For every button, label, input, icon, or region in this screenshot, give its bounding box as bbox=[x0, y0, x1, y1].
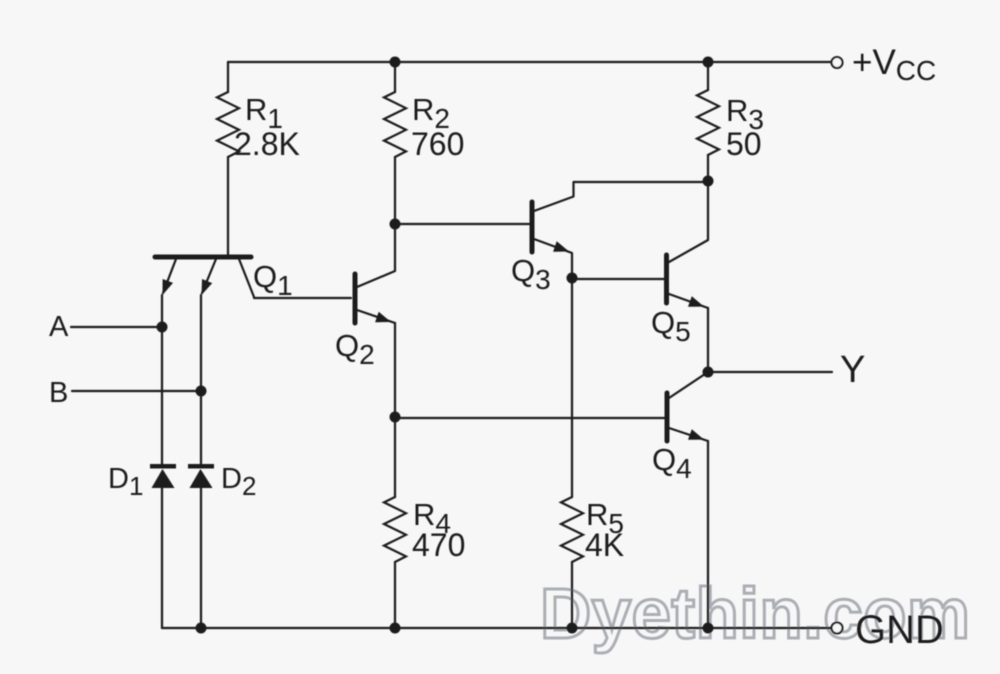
svg-text:Y: Y bbox=[840, 349, 865, 391]
transistor Q5 emitter arrowhead bbox=[688, 296, 704, 306]
junction dot node A bbox=[157, 322, 168, 333]
junction dot Q2 emitter node bbox=[390, 412, 401, 423]
transistor Q3 bar bbox=[530, 202, 535, 252]
wire top VCC rail bbox=[228, 61, 832, 63]
svg-text:4K: 4K bbox=[585, 527, 624, 563]
transistor Q1 emitter1 diagonal bbox=[163, 259, 176, 293]
wire Q4 emitter down to ground rail bbox=[707, 441, 709, 628]
wire Q2 emitter down to node bbox=[394, 323, 396, 417]
resistor R2 bbox=[384, 92, 406, 157]
diode D1 bbox=[150, 464, 176, 488]
transistor Q3 emitter diagonal bbox=[534, 239, 572, 253]
wire D1 bottom to ground rail bbox=[161, 488, 163, 628]
resistor R5 bbox=[561, 497, 583, 562]
wire Q4 collector to Y node bbox=[669, 372, 708, 398]
junction dot R2 bottom node bbox=[390, 219, 401, 230]
transistor Q4 emitter arrowhead bbox=[688, 429, 704, 439]
wire Q1 collector to Q2 base bbox=[239, 259, 351, 298]
wire D2 bottom to ground rail bbox=[200, 488, 202, 628]
wire node to Q5 base bbox=[572, 278, 664, 280]
wire node to R4 top bbox=[394, 417, 396, 497]
junction dot top rail R2 bbox=[390, 57, 401, 68]
wire A node down to D1 bbox=[161, 327, 163, 464]
transistor Q1 base bar bbox=[155, 255, 251, 260]
junction dot ground rail R5 bbox=[567, 623, 578, 634]
resistor R1 bbox=[217, 92, 239, 157]
wire R1 top lead bbox=[227, 62, 229, 92]
wire node R3 to Q3 collector bbox=[534, 182, 708, 211]
svg-text:A: A bbox=[49, 311, 69, 343]
wire Q3 emitter down to node bbox=[571, 254, 573, 278]
wire R5 bottom to ground rail bbox=[571, 562, 573, 628]
transistor Q5 bar bbox=[664, 255, 669, 303]
wire R1 bottom to Q1 base bbox=[227, 157, 229, 255]
wire input B lead bbox=[72, 390, 201, 392]
transistor Q3 emitter arrowhead bbox=[553, 241, 569, 251]
transistor Q4 bar bbox=[665, 393, 670, 441]
wire Q1 emitter1 down to input A bbox=[161, 295, 163, 327]
transistor Q1 emitter2 arrowhead bbox=[202, 279, 213, 295]
wire Q1 emitter2 down to input B bbox=[200, 295, 202, 391]
svg-text:B: B bbox=[49, 377, 68, 409]
resistor R3 bbox=[697, 90, 719, 155]
wire R2 node down to Q2 collector bbox=[357, 224, 395, 287]
wire Q2 emitter node to Q4 base bbox=[395, 417, 665, 419]
wire node down to R5 top bbox=[571, 278, 573, 497]
junction dot output node Y bbox=[703, 367, 714, 378]
terminal GND bbox=[832, 623, 843, 634]
svg-text:2.8K: 2.8K bbox=[234, 126, 300, 162]
junction dot node B bbox=[196, 386, 207, 397]
wire R2 bottom to node bbox=[394, 157, 396, 224]
transistor Q1 emitter2 diagonal bbox=[202, 259, 216, 293]
wire Q5 emitter down to output node Y bbox=[707, 308, 709, 372]
diode D2 bbox=[188, 464, 214, 488]
wire R2 node to Q3 base bbox=[395, 223, 529, 225]
wire R4 bottom to ground rail bbox=[394, 562, 396, 628]
transistor Q2 bar bbox=[353, 274, 358, 323]
junction dot Q3 emitter node bbox=[567, 273, 578, 284]
junction dot top rail R3 bbox=[703, 57, 714, 68]
junction dot ground rail D2 bbox=[196, 623, 207, 634]
wire R3 top lead bbox=[707, 62, 709, 90]
wire R3 bottom to node bbox=[707, 155, 709, 181]
junction dot ground rail R4 bbox=[390, 623, 401, 634]
wire B node down to D2 bbox=[200, 391, 202, 464]
transistor Q2 emitter arrowhead bbox=[375, 312, 391, 322]
wire bottom ground rail bbox=[162, 627, 832, 629]
terminal +VCC bbox=[832, 57, 843, 68]
wire R2 top lead bbox=[394, 62, 396, 92]
junction dot ground rail Q4 bbox=[703, 623, 714, 634]
transistor Q1 emitter1 arrowhead bbox=[163, 279, 174, 295]
junction dot R3 bottom node bbox=[703, 176, 714, 187]
transistor Q2 emitter diagonal bbox=[357, 310, 395, 323]
transistor Q5 emitter diagonal bbox=[669, 294, 708, 308]
svg-text:470: 470 bbox=[412, 527, 465, 563]
svg-text:GND: GND bbox=[855, 608, 944, 652]
wire input A lead bbox=[71, 326, 162, 328]
resistor R4 bbox=[384, 497, 406, 562]
svg-text:50: 50 bbox=[726, 126, 762, 162]
transistor Q4 emitter diagonal bbox=[669, 428, 708, 441]
svg-text:760: 760 bbox=[411, 126, 464, 162]
wire output Y lead bbox=[708, 371, 832, 373]
wire node R3 down to Q5 collector bbox=[669, 181, 708, 262]
